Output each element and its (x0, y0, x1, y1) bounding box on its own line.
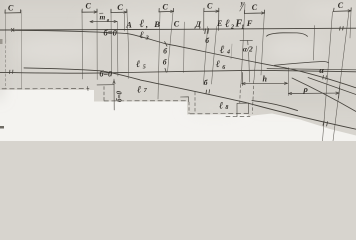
curve annotation arc bottom right (252, 101, 298, 111)
dimension C1 bracket (5, 10, 21, 13)
svg-text:,: , (145, 21, 148, 30)
svg-text:б: б (204, 78, 208, 87)
svg-text:C: C (163, 2, 169, 11)
joint vertical x82 (81, 10, 84, 79)
svg-text:m: m (100, 13, 106, 22)
svg-text:h: h (263, 74, 268, 83)
joint cross mark on S1 (11, 28, 14, 31)
svg-text:ρ: ρ (303, 84, 309, 94)
joint vertical x6 dashed lower (4, 41, 7, 88)
frog wing rail straight (267, 69, 356, 70)
joint vertical x314 (314, 26, 315, 61)
svg-text:1: 1 (241, 24, 244, 30)
white lower margin region (0, 90, 356, 141)
edge smudge left (0, 39, 3, 44)
svg-text:ℓ: ℓ (225, 18, 230, 30)
paper tone darker edges (0, 0, 356, 108)
svg-text:6: 6 (222, 65, 225, 71)
svg-text:ℓ: ℓ (137, 85, 141, 96)
C7 right leg (350, 11, 351, 38)
dashed tail at end box (226, 115, 250, 117)
svg-text:б=0: б=0 (100, 69, 113, 78)
svg-text:C: C (338, 1, 344, 10)
m dimension right leg x117 (116, 22, 119, 77)
gamma slash mark at F (240, 3, 245, 12)
joint vertical x202 (203, 12, 205, 31)
stagger double tick on curve2 mid (206, 90, 210, 94)
svg-text:Д: Д (194, 19, 202, 29)
svg-text:ℓ: ℓ (220, 44, 225, 56)
svg-text:8: 8 (225, 105, 228, 111)
svg-text:б: б (163, 47, 167, 56)
long slanted joint line J2 (333, 11, 349, 141)
svg-text:α: α (319, 65, 324, 75)
joint vertical x207 slanted (203, 27, 207, 85)
svg-text:ℓ: ℓ (136, 59, 140, 70)
svg-text:б=0: б=0 (104, 28, 118, 38)
svg-text:5: 5 (143, 64, 146, 70)
stagger double tick on S1 at D (205, 29, 209, 34)
svg-text:ℓ: ℓ (140, 18, 145, 30)
paper tone light patches (15, 3, 356, 116)
svg-text:4: 4 (226, 49, 230, 55)
joint vertical x97 (96, 10, 98, 80)
frog wing rail diverging (275, 61, 329, 65)
svg-text:E: E (216, 19, 222, 28)
stagger double tick on S1 right (340, 27, 344, 31)
stagger double tick on curve2 right (323, 121, 328, 126)
paper background (0, 0, 356, 141)
dimension C4 bracket (159, 8, 174, 12)
svg-text:ℓ: ℓ (219, 101, 223, 112)
step solid line above b=0 vertical (97, 84, 114, 86)
joint vertical x6 (4, 10, 7, 41)
h dimension bracket (242, 73, 288, 86)
dashed joint hanger x195 (194, 92, 196, 113)
svg-text:C: C (174, 20, 180, 29)
m dimension line (90, 13, 117, 23)
diverging axis line lower right (292, 78, 356, 112)
frog zone overhead arc bracket (267, 33, 308, 37)
rail S2 lower straight string (0, 70, 356, 73)
d/2 leader vertical (247, 41, 249, 45)
svg-text:2: 2 (230, 25, 234, 31)
svg-text:C: C (117, 2, 123, 12)
joint vertical x23 (20, 10, 23, 88)
stagger tick on curve1 (165, 42, 167, 47)
boundary end tick (87, 86, 89, 90)
joint vertical x110 (110, 10, 113, 76)
double tick on curve1 far right (323, 75, 327, 79)
joint vertical x232 (231, 44, 232, 59)
dimension C6 bracket (245, 10, 265, 14)
dashed joint hanger x234 (252, 81, 253, 114)
svg-text:ℓ: ℓ (140, 30, 144, 41)
svg-text:б: б (163, 58, 167, 67)
joint vertical x127 (127, 10, 129, 79)
dimension C2 bracket (82, 9, 97, 13)
dimension C7 bracket (334, 8, 352, 12)
curve2 diverging lower string (24, 68, 356, 129)
joint vertical x186 (183, 22, 186, 73)
b=0 vertical dimension with arrow (113, 79, 115, 110)
svg-text:б: б (205, 36, 209, 45)
dashed boundary segment 2 (104, 100, 186, 102)
stagger tick on S2 (165, 68, 166, 72)
frog point vertical x288 (288, 68, 290, 96)
dashed step vertical x190 (188, 102, 190, 114)
svg-text:C: C (8, 3, 14, 12)
joint vertical x249 lower (249, 52, 250, 82)
joint vertical x247 slanted through F (241, 4, 245, 84)
boundary step at x181 (181, 97, 189, 102)
short fan line at frog (308, 78, 356, 95)
joint vertical x217 slanted (218, 12, 220, 31)
dashed boundary segment 3 (190, 113, 248, 115)
svg-text:C: C (207, 2, 213, 11)
joint vertical x216 slanted (212, 27, 217, 85)
svg-text:B: B (153, 19, 160, 29)
joint vertical x160 (158, 12, 160, 99)
svg-text:A: A (125, 19, 132, 29)
joint double tick on S2 left (10, 70, 13, 74)
dimension C3 bracket (111, 9, 127, 13)
curve1 diverging upper string (12, 30, 356, 88)
rail S1 top straight string (0, 28, 356, 30)
svg-text:у: у (240, 1, 244, 7)
svg-text:C: C (86, 1, 92, 10)
svg-text:3: 3 (145, 36, 149, 42)
dashed joint hanger x214 (239, 85, 242, 103)
svg-text:α/2: α/2 (243, 45, 253, 54)
d/2 leader horizontal (240, 39, 253, 41)
svg-text:ℓ: ℓ (216, 59, 220, 70)
end step box (237, 103, 249, 116)
dashed step vertical x104 (103, 87, 105, 101)
svg-text:C: C (252, 3, 258, 12)
joint vertical x124 (124, 14, 126, 31)
rho dimension bracket (289, 86, 340, 98)
svg-text:б=0: б=0 (116, 91, 124, 102)
long slanted joint line J1 (323, 12, 333, 142)
joint vertical x256 slanted (254, 46, 257, 80)
dimension C5 bracket (204, 8, 219, 12)
svg-text:F: F (246, 18, 253, 28)
dashed boundary segment 1 (2, 88, 89, 90)
joint vertical x263 (261, 14, 264, 76)
joint vertical x170 (168, 12, 174, 72)
